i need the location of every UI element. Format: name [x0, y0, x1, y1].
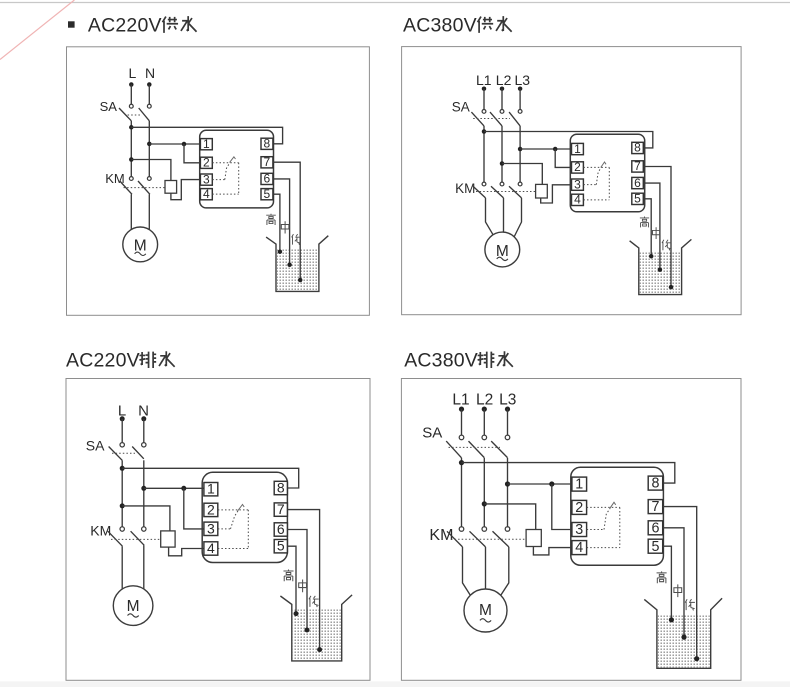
relay internal contact: dotted lead from pin 3 — [587, 529, 604, 531]
wire from SA to relay terminal 8 (around top) — [122, 468, 299, 488]
wire motor lead 1 — [486, 198, 493, 234]
pink diagonal crop line — [0, 0, 74, 60]
contactor KM contact circle — [482, 182, 486, 186]
wire to relay terminal 1 — [520, 148, 571, 150]
relay pin 6 — [274, 523, 287, 536]
wire vertical line x=520.1 — [519, 126, 521, 182]
wire L drop — [121, 419, 123, 443]
liquid level controller U1 (relay box) — [202, 472, 287, 562]
svg-text:KM: KM — [429, 527, 453, 544]
relay pin 2 — [572, 162, 584, 173]
relay pin 5 — [261, 189, 273, 200]
contactor KM contact circle — [505, 527, 510, 532]
switch SA contact circle L — [129, 104, 133, 108]
node junction on terminal-1 wire — [549, 481, 554, 486]
svg-text:6: 6 — [634, 176, 641, 190]
wire middle probe (pin 6) — [643, 183, 660, 270]
relay internal contact blade tip (solid) — [230, 157, 236, 163]
terminal N dot — [141, 416, 146, 421]
relay internal contact blade tip (solid) — [610, 502, 616, 508]
relay pin 8 — [274, 481, 287, 494]
relay pin 1 — [572, 143, 584, 154]
contactor KM blade 1 — [473, 186, 486, 198]
contactor KM contact circle — [129, 177, 133, 181]
panel frame AC380V water supply — [402, 47, 741, 315]
svg-text:AC220V: AC220V — [66, 350, 140, 372]
relay pin 7 — [632, 161, 644, 172]
switch SA blade 2 — [469, 441, 485, 458]
wire L1 drop — [461, 409, 463, 435]
switch SA contact circle L — [120, 443, 124, 447]
svg-text:SA: SA — [86, 438, 105, 454]
svg-text:KM: KM — [455, 181, 475, 196]
wire bridge terminal 1 to terminal 3 — [184, 488, 204, 529]
svg-text:7: 7 — [652, 499, 660, 515]
switch SA linkage dotted line — [449, 446, 501, 448]
relay pin 6 — [648, 521, 663, 535]
svg-text:KM: KM — [90, 523, 111, 539]
label middle level (zhong) — [281, 221, 289, 233]
node junction (122.2,468.3) — [120, 466, 125, 471]
electrode dot low probe (pin 7) — [317, 647, 322, 652]
switch SA blade 2 — [139, 108, 150, 121]
wire L drop — [130, 85, 132, 105]
relay internal contact blade tip (solid) — [601, 162, 606, 167]
relay internal contact: dotted lead from pin 2 — [218, 509, 249, 511]
contactor KM blade 3 — [493, 531, 509, 547]
wire bridge terminal 1 to terminal 2 — [555, 149, 571, 167]
terminal L1 dot — [482, 86, 487, 91]
relay internal dotted link vertical — [247, 510, 249, 549]
wire from SA to relay terminal 8 (around top) — [131, 127, 282, 144]
relay internal contact blade tip (solid) — [238, 505, 245, 512]
wire high probe (pin 5) — [643, 199, 651, 256]
switch SA contact circle L3 — [505, 435, 510, 440]
svg-text:8: 8 — [652, 476, 660, 492]
wire coil to terminal 4 — [533, 547, 572, 555]
wire low probe (pin 7) — [287, 510, 319, 650]
relay internal contact blade (dashed) — [231, 511, 239, 529]
contactor KM contact circle — [482, 527, 487, 532]
node junction (122.2,505.9) — [120, 503, 125, 508]
relay pin 4 — [572, 541, 587, 555]
label high level (gao) — [266, 214, 276, 225]
svg-text:AC380V: AC380V — [404, 350, 478, 372]
svg-text:8: 8 — [634, 141, 641, 155]
electrode dot middle probe (pin 6) — [305, 628, 310, 633]
label high level (gao) — [640, 217, 649, 228]
relay pin 3 — [572, 179, 584, 190]
wire L2 drop — [483, 409, 485, 435]
water (dotted fill) — [277, 248, 318, 290]
switch SA contact circle N — [142, 443, 146, 447]
node junction (507.5,484.0) — [505, 481, 510, 486]
wire middle probe (pin 6) — [663, 528, 684, 637]
svg-text:4: 4 — [575, 540, 583, 556]
wire L2 drop — [501, 89, 503, 110]
wire to relay terminal 1 — [144, 487, 204, 489]
relay pin 7 — [648, 500, 663, 514]
wire high probe (pin 5) — [663, 546, 672, 620]
wire motor lead 1 — [130, 194, 132, 229]
node junction (502.0,163.5) — [500, 161, 505, 166]
svg-text:2: 2 — [574, 160, 581, 174]
motor tilde symbol — [497, 257, 508, 260]
svg-text:SA: SA — [100, 99, 118, 114]
relay internal contact: dotted lead from pin 2 — [587, 506, 620, 508]
svg-text:2: 2 — [575, 500, 583, 516]
node junction (461.5,462.6) — [459, 460, 464, 465]
switch SA blade 1 — [446, 441, 461, 458]
svg-text:1: 1 — [207, 481, 215, 497]
wire N drop — [143, 419, 145, 443]
relay internal contact blade (dashed) — [596, 167, 601, 185]
wire vertical line x=122.2 — [121, 460, 123, 527]
wire vertical line x=461.5 — [461, 458, 463, 527]
svg-text:4: 4 — [207, 540, 215, 556]
contactor KM contact circle — [120, 527, 124, 531]
svg-text:1: 1 — [575, 477, 583, 493]
wire middle probe (pin 6) — [273, 179, 290, 265]
wire to contactor coil KM — [502, 164, 542, 185]
contactor KM contact circle — [518, 182, 522, 186]
relay internal dotted link vertical — [619, 507, 621, 547]
electrode dot high probe (pin 5) — [278, 249, 283, 254]
contactor KM contact circle — [459, 527, 464, 532]
wire motor lead 2 — [143, 545, 145, 589]
relay pin 7 — [274, 503, 287, 516]
wire to relay terminal 1 — [149, 143, 200, 145]
motor M — [485, 232, 520, 267]
contactor KM contact circle — [147, 177, 151, 181]
switch SA blade 3 — [491, 441, 507, 458]
relay pin 1 — [204, 483, 218, 496]
relay internal contact: dotted lead from pin 3 — [218, 528, 231, 530]
wire coil to terminal 3 — [541, 185, 572, 203]
electrode dot middle probe (pin 6) — [287, 263, 292, 268]
svg-text:AC220V: AC220V — [88, 15, 162, 37]
wire from SA to relay terminal 8 (around top) — [484, 132, 653, 148]
label low level (di) — [309, 596, 319, 607]
relay internal contact: dotted lead from pin 4 — [583, 199, 609, 201]
wire vertical line x=149.3 — [148, 121, 150, 177]
wire high probe (pin 5) — [273, 194, 280, 252]
svg-text:5: 5 — [634, 192, 641, 206]
relay pin 6 — [632, 177, 644, 188]
svg-text:M: M — [479, 602, 492, 619]
motor M — [123, 227, 158, 262]
node junction (131.3,127.3) — [129, 125, 134, 130]
svg-text:L: L — [129, 65, 137, 81]
relay pin 2 — [572, 500, 587, 514]
svg-text:L3: L3 — [515, 72, 531, 88]
label high level (gao) — [283, 569, 293, 581]
contactor KM blade 1 — [120, 181, 132, 194]
panel frame AC220V water supply — [67, 47, 370, 316]
label low level (di) — [662, 240, 671, 251]
wire to contactor coil KM — [484, 504, 535, 530]
contactor KM linkage dotted line — [124, 187, 166, 189]
relay internal contact: dotted lead from pin 3 — [212, 179, 225, 181]
wire L3 drop — [519, 89, 521, 110]
switch SA blade 3 — [509, 112, 520, 126]
relay pin 4 — [200, 189, 212, 200]
contactor coil KM — [161, 531, 175, 547]
wire coil to terminal 4 — [169, 547, 204, 556]
liquid level controller U1 (relay box) — [570, 134, 644, 212]
wire N drop — [148, 85, 150, 105]
svg-text:6: 6 — [264, 172, 271, 186]
water tank — [266, 236, 328, 292]
terminal L2 dot — [500, 86, 505, 91]
panel frame AC380V drainage — [401, 379, 741, 681]
relay internal contact: dotted lead from pin 4 — [212, 193, 238, 195]
relay pin 1 — [200, 139, 212, 150]
svg-text:1: 1 — [203, 137, 210, 151]
water (dotted fill) — [658, 614, 710, 667]
wire motor lead 2 — [503, 198, 505, 232]
relay internal contact blade (dashed) — [225, 162, 230, 179]
motor M — [113, 586, 153, 626]
wire vertical line x=507.5 — [507, 458, 509, 527]
relay pin 4 — [204, 542, 218, 555]
title bullet square — [68, 21, 75, 27]
contactor KM blade 2 — [138, 181, 150, 194]
motor M — [464, 589, 507, 632]
relay internal contact: dotted lead from pin 4 — [587, 547, 620, 549]
wire motor lead 1 — [463, 547, 471, 596]
terminal L2 dot — [482, 407, 487, 412]
water tank — [280, 595, 352, 661]
svg-text:7: 7 — [264, 155, 271, 169]
contactor KM blade 2 — [131, 531, 145, 545]
svg-text:AC380V: AC380V — [403, 15, 477, 37]
motor tilde symbol — [480, 619, 491, 622]
switch SA blade 2 — [132, 447, 144, 459]
wire motor lead 2 — [485, 547, 487, 589]
svg-text:3: 3 — [207, 520, 215, 536]
relay internal contact: dotted lead from pin 2 — [583, 166, 609, 168]
motor tilde symbol — [128, 614, 139, 617]
svg-text:8: 8 — [277, 479, 285, 495]
relay pin 5 — [274, 540, 287, 553]
wire middle probe (pin 6) — [287, 530, 307, 631]
svg-text:L3: L3 — [499, 392, 516, 409]
panel frame AC220V drainage — [66, 379, 370, 681]
wire vertical line x=131.3 — [130, 121, 132, 177]
contactor KM blade 3 — [509, 186, 522, 198]
terminal L1 dot — [459, 407, 464, 412]
svg-text:5: 5 — [652, 539, 660, 555]
switch SA contact circle L3 — [518, 110, 522, 114]
svg-text:L1: L1 — [452, 392, 469, 409]
svg-text:L2: L2 — [476, 392, 493, 409]
switch SA contact circle N — [147, 104, 151, 108]
wire motor lead 1 — [121, 546, 123, 589]
relay internal dotted link vertical — [608, 167, 610, 199]
water (dotted fill) — [293, 609, 341, 660]
node junction on terminal-1 wire — [181, 486, 186, 491]
svg-text:3: 3 — [203, 172, 210, 186]
electrode dot low probe (pin 7) — [298, 278, 303, 283]
wire low probe (pin 7) — [643, 167, 671, 288]
relay pin 6 — [261, 173, 273, 184]
label middle level (zhong) — [653, 227, 660, 239]
wire L3 drop — [507, 409, 509, 435]
node junction (149.3,143.9) — [147, 142, 152, 147]
contactor coil KM — [536, 184, 548, 198]
contactor KM blade 2 — [470, 531, 486, 547]
terminal L dot — [120, 416, 125, 421]
label high level (gao) — [657, 571, 667, 583]
svg-text:N: N — [145, 65, 155, 81]
contactor coil KM — [165, 181, 177, 194]
water tank — [630, 239, 692, 294]
wire to relay terminal 1 — [508, 483, 572, 485]
svg-text:SA: SA — [452, 100, 470, 115]
svg-text:5: 5 — [264, 187, 271, 201]
switch SA contact circle L1 — [482, 110, 486, 114]
electrode dot high probe (pin 5) — [669, 617, 674, 622]
wire bridge terminal 1 to terminal 3 — [552, 484, 572, 530]
svg-text:1: 1 — [574, 142, 581, 156]
contactor KM blade 1 — [447, 531, 463, 547]
wire vertical line x=502.0 — [501, 126, 503, 182]
contactor KM blade 2 — [491, 186, 504, 198]
switch SA blade 1 — [109, 447, 123, 461]
svg-text:8: 8 — [264, 137, 271, 151]
electrode dot low probe (pin 7) — [694, 656, 699, 661]
wire low probe (pin 7) — [273, 162, 300, 280]
terminal L3 dot — [518, 86, 523, 91]
switch SA blade 2 — [490, 112, 502, 126]
relay pin 4 — [572, 194, 584, 205]
relay internal contact: dotted lead from pin 3 — [583, 184, 596, 186]
electrode dot low probe (pin 7) — [669, 285, 674, 290]
contactor KM linkage dotted line — [451, 538, 526, 540]
water tank — [644, 598, 722, 668]
svg-text:4: 4 — [203, 187, 210, 201]
relay internal contact blade (dashed) — [604, 509, 610, 530]
node junction (143.8,488.3) — [141, 486, 146, 491]
water (dotted fill) — [640, 252, 681, 294]
relay internal contact: dotted lead from pin 2 — [212, 162, 238, 164]
switch SA linkage dotted line — [473, 118, 510, 120]
svg-text:7: 7 — [277, 501, 285, 517]
switch SA linkage dotted line — [112, 452, 135, 454]
svg-text:6: 6 — [277, 521, 285, 537]
wire L1 drop — [483, 89, 485, 110]
wire vertical line x=484.3 — [483, 458, 485, 527]
wire to contactor coil KM — [131, 160, 171, 181]
electrode dot high probe (pin 5) — [649, 254, 654, 259]
contactor KM blade 1 — [108, 531, 123, 546]
wire low probe (pin 7) — [663, 507, 697, 659]
svg-text:2: 2 — [203, 155, 210, 169]
relay pin 2 — [200, 157, 212, 168]
terminal L dot — [129, 82, 134, 87]
switch SA contact circle L2 — [500, 110, 504, 114]
relay pin 2 — [204, 503, 218, 516]
relay pin 3 — [572, 523, 587, 537]
svg-text:4: 4 — [574, 193, 581, 207]
node junction (131.3,159.5) — [129, 157, 134, 162]
svg-text:3: 3 — [575, 522, 583, 538]
top separator line — [0, 2, 790, 4]
electrode dot high probe (pin 5) — [294, 611, 299, 616]
svg-text:6: 6 — [652, 520, 660, 536]
terminal N dot — [147, 82, 152, 87]
node junction (520.1,149.0) — [518, 147, 523, 152]
motor tilde symbol — [135, 252, 146, 255]
liquid level controller U1 (relay box) — [571, 467, 664, 565]
electrode dot middle probe (pin 6) — [658, 267, 663, 272]
svg-text:3: 3 — [574, 177, 581, 191]
contactor KM linkage dotted line — [111, 538, 161, 540]
contactor KM contact circle — [142, 527, 146, 531]
node junction (484.3,503.9) — [482, 501, 487, 506]
terminal L3 dot — [505, 407, 510, 412]
switch SA linkage dotted line — [128, 114, 141, 116]
bottom gray strip — [0, 681, 790, 687]
relay pin 5 — [648, 539, 663, 553]
svg-text:2: 2 — [207, 501, 215, 517]
label middle level (zhong) — [674, 584, 682, 597]
relay pin 1 — [572, 477, 587, 491]
electrode dot middle probe (pin 6) — [681, 635, 686, 640]
wire motor lead 2 — [148, 194, 150, 229]
label low level (di) — [292, 234, 301, 245]
svg-text:L1: L1 — [476, 72, 492, 88]
wire to contactor coil KM — [122, 506, 170, 531]
wire vertical line x=484.0 — [483, 126, 485, 182]
wire bridge terminal 1 to terminal 2 — [184, 144, 200, 163]
wire coil to terminal 3 — [171, 180, 201, 200]
wire motor lead 3 — [514, 198, 521, 237]
switch SA contact circle L2 — [482, 435, 487, 440]
wire vertical line x=143.8 — [143, 460, 145, 527]
liquid level controller U1 (relay box) — [200, 130, 274, 208]
svg-text:SA: SA — [422, 424, 442, 441]
relay pin 5 — [632, 193, 644, 204]
relay pin 8 — [632, 142, 644, 153]
wire high probe (pin 5) — [287, 546, 296, 613]
wire motor lead 3 — [501, 547, 509, 596]
switch SA contact circle L1 — [459, 435, 464, 440]
label middle level (zhong) — [299, 580, 307, 593]
relay pin 3 — [200, 174, 212, 185]
relay internal contact: dotted lead from pin 4 — [218, 547, 249, 549]
svg-text:M: M — [127, 598, 140, 615]
relay pin 8 — [261, 138, 273, 149]
svg-text:L2: L2 — [496, 72, 512, 88]
switch SA blade 1 — [119, 108, 131, 121]
contactor KM contact circle — [500, 182, 504, 186]
relay internal dotted link vertical — [238, 163, 240, 194]
label low level (di) — [685, 599, 695, 610]
svg-text:7: 7 — [634, 159, 641, 173]
switch SA blade 1 — [471, 112, 484, 126]
svg-text:5: 5 — [277, 538, 285, 554]
relay pin 7 — [261, 157, 273, 168]
contactor coil KM — [526, 530, 541, 547]
node junction on terminal-1 wire — [182, 142, 187, 147]
relay pin 3 — [204, 522, 218, 535]
node junction on terminal-1 wire — [553, 147, 558, 152]
node junction (484.0,131.5) — [482, 129, 487, 134]
contactor KM linkage dotted line — [476, 191, 536, 193]
wire from SA to relay terminal 8 (around top) — [462, 463, 675, 484]
